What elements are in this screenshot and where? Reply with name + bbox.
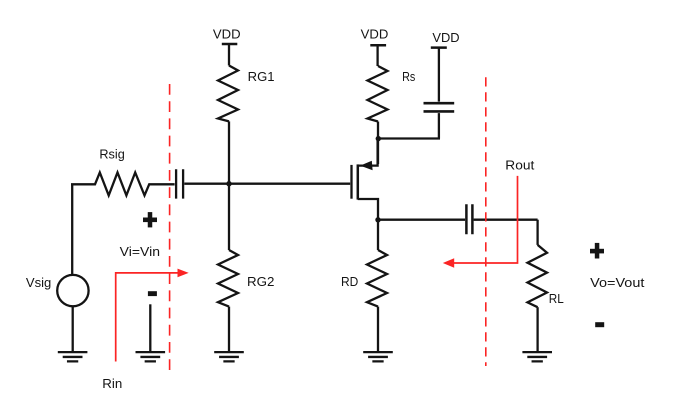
svg-text:Rs: Rs bbox=[402, 69, 416, 84]
svg-text:RG2: RG2 bbox=[247, 274, 274, 289]
svg-text:VDD: VDD bbox=[213, 27, 241, 42]
svg-text:Rout: Rout bbox=[505, 158, 534, 173]
svg-text:RL: RL bbox=[549, 291, 564, 306]
svg-text:VDD: VDD bbox=[361, 27, 389, 42]
svg-text:Vi=Vin: Vi=Vin bbox=[120, 244, 160, 259]
svg-text:RD: RD bbox=[341, 274, 358, 289]
svg-text:Vo=Vout: Vo=Vout bbox=[590, 275, 645, 290]
svg-text:RG1: RG1 bbox=[248, 69, 275, 84]
svg-text:Rsig: Rsig bbox=[99, 146, 124, 161]
svg-text:VDD: VDD bbox=[432, 30, 459, 45]
svg-text:Rin: Rin bbox=[102, 376, 122, 391]
svg-text:Vsig: Vsig bbox=[26, 275, 51, 290]
